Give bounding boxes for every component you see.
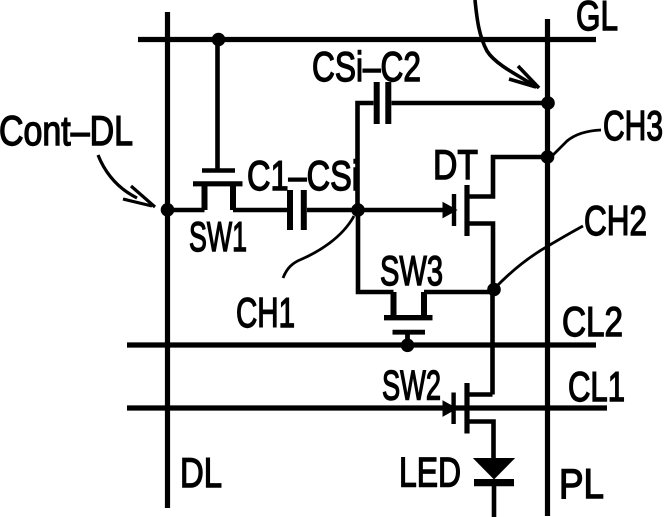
node Cont-DL on DL bbox=[161, 203, 175, 217]
wire: LED cathode down to bottom bbox=[492, 484, 497, 517]
svg-text:SW2: SW2 bbox=[382, 362, 441, 409]
svg-text:Cont–DL: Cont–DL bbox=[0, 107, 133, 154]
transistor SW3 bbox=[384, 292, 433, 343]
LED diode bbox=[474, 459, 514, 483]
wire: CSi-C2 right plate to PL junction bbox=[392, 101, 549, 106]
svg-text:CH2: CH2 bbox=[584, 197, 647, 244]
svg-text:DT: DT bbox=[433, 141, 478, 188]
wire: node CH1 down and right to SW3 bbox=[358, 210, 394, 292]
leader line CH2 bbox=[495, 226, 583, 288]
wire: DT drain up to PL node CH3 bbox=[470, 157, 549, 197]
node: SW3 gate on CL2 bbox=[401, 339, 415, 353]
wire: gate line GL horizontal bbox=[138, 37, 596, 42]
transistor DT bbox=[443, 185, 467, 236]
node: PL to CSi-C2 junction bbox=[541, 96, 555, 110]
leader line CH3 bbox=[551, 130, 601, 157]
svg-text:CSi–C2: CSi–C2 bbox=[312, 43, 421, 90]
svg-text:SW3: SW3 bbox=[380, 247, 443, 294]
wire: power line PL vertical bbox=[545, 19, 550, 516]
wire: SW1 gate lead from GL bbox=[215, 40, 220, 169]
wire: control line CL2 horizontal bbox=[127, 342, 596, 347]
capacitor CSi-C2 bbox=[377, 82, 389, 124]
wire: SW2 source down to LED anode bbox=[467, 422, 494, 461]
node CH2 bbox=[487, 283, 501, 297]
wire: control line CL1 horizontal bbox=[127, 405, 607, 410]
wire: DL node to SW1 source bbox=[168, 208, 205, 213]
svg-text:DL: DL bbox=[180, 449, 222, 496]
wire: node CH1 to DT gate bbox=[358, 208, 443, 213]
wire: node CH2 down to SW2 drain bbox=[490, 290, 495, 395]
wire: capacitor C1 right plate to node CH1 bbox=[307, 208, 358, 213]
svg-text:LED: LED bbox=[399, 449, 461, 496]
svg-text:SW1: SW1 bbox=[189, 213, 247, 260]
wire: CSi-C2 left plate down to node CH1 bbox=[358, 103, 374, 210]
node CH3 on PL bbox=[541, 150, 555, 164]
svg-text:PL: PL bbox=[559, 460, 604, 507]
svg-text:GL: GL bbox=[576, 0, 618, 39]
wire: DT source down to node CH2 bbox=[470, 224, 494, 290]
wire: SW2 drain jog bbox=[467, 392, 493, 397]
wire: SW1 drain to capacitor C1 bbox=[233, 208, 287, 213]
svg-text:CH1: CH1 bbox=[236, 289, 295, 336]
svg-text:CH3: CH3 bbox=[603, 102, 663, 149]
wire: SW3 drain to node CH2 bbox=[424, 290, 494, 295]
transistor SW2 bbox=[443, 383, 467, 434]
leader line CH1 bbox=[283, 216, 354, 278]
arrow leader to PL/CSi-C2 junction bbox=[475, 0, 539, 88]
svg-text:C1–CSi: C1–CSi bbox=[247, 152, 359, 199]
capacitor C1-CSi bbox=[290, 190, 304, 230]
svg-text:CL1: CL1 bbox=[568, 363, 625, 410]
transistor SW1 bbox=[193, 171, 243, 211]
arrow leader for Cont-DL bbox=[98, 155, 155, 207]
wire: data line DL vertical bbox=[165, 12, 170, 508]
node: GL to SW1 gate junction bbox=[212, 33, 226, 47]
node CH1 bbox=[351, 203, 365, 217]
svg-text:CL2: CL2 bbox=[562, 298, 623, 345]
